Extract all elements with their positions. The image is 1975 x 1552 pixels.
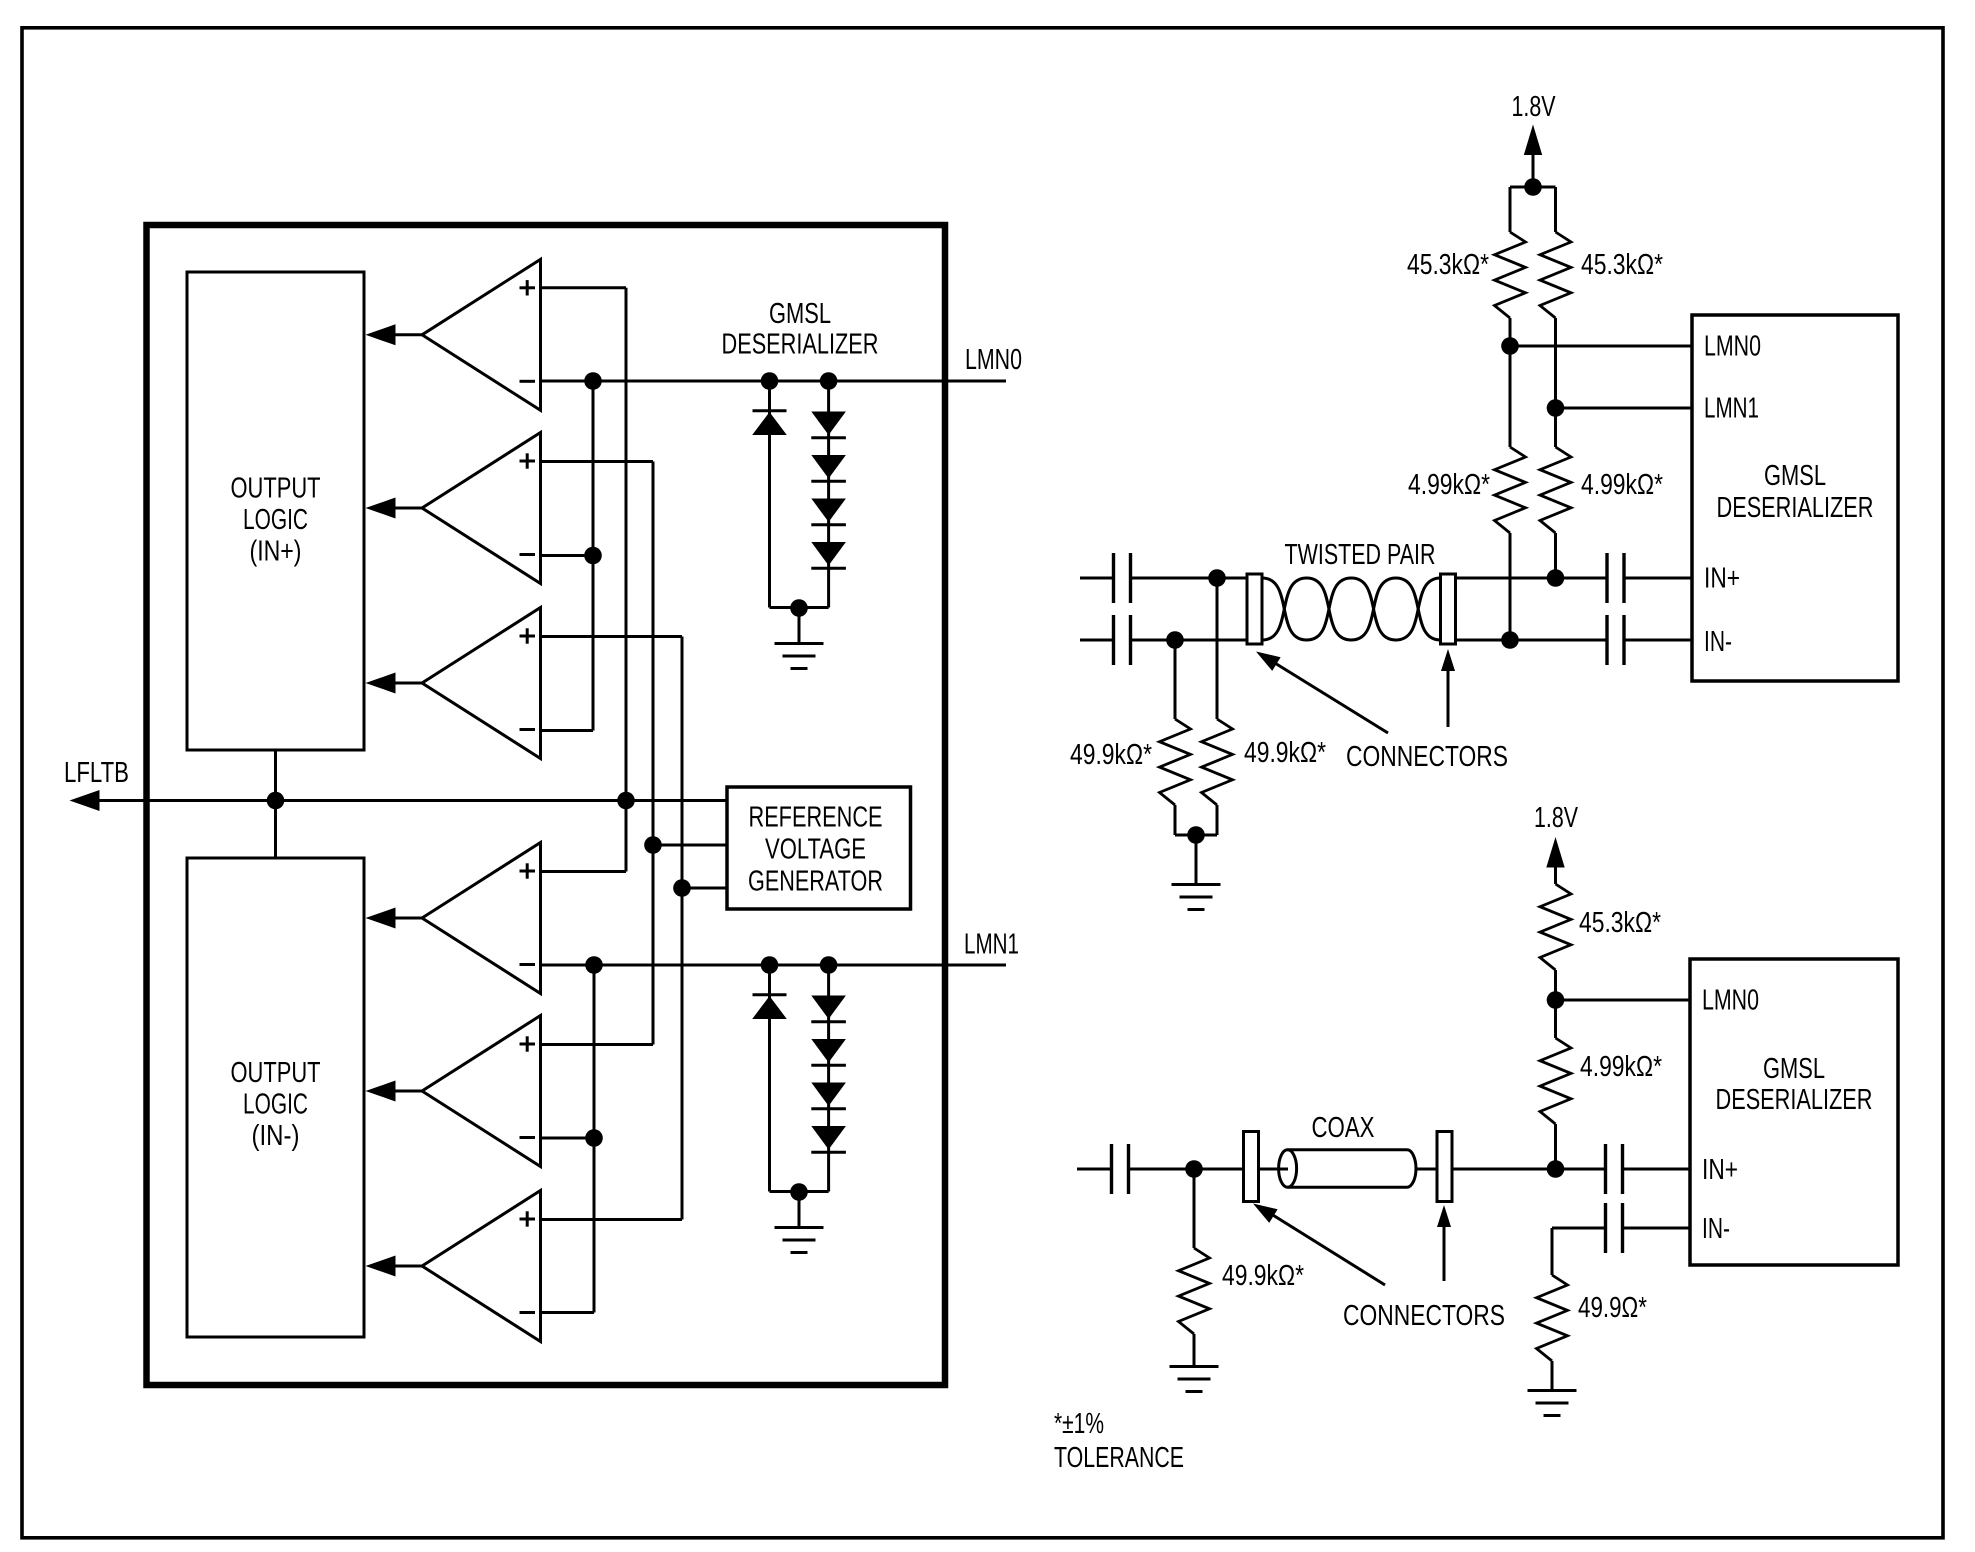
svg-text:(IN+): (IN+)	[250, 536, 302, 568]
svg-text:49.9kΩ*: 49.9kΩ*	[1070, 739, 1152, 771]
svg-text:(IN-): (IN-)	[252, 1120, 300, 1152]
svg-text:VOLTAGE: VOLTAGE	[765, 834, 866, 866]
svg-text:IN+: IN+	[1702, 1154, 1738, 1186]
svg-text:LOGIC: LOGIC	[243, 1089, 308, 1121]
svg-text:4.99kΩ*: 4.99kΩ*	[1408, 469, 1490, 501]
svg-text:45.3kΩ*: 45.3kΩ*	[1407, 249, 1489, 281]
svg-text:IN+: IN+	[1704, 563, 1740, 595]
svg-text:LMN0: LMN0	[1702, 985, 1759, 1017]
svg-text:GMSL: GMSL	[1763, 1053, 1825, 1085]
svg-text:GMSL: GMSL	[769, 298, 831, 330]
svg-text:TWISTED PAIR: TWISTED PAIR	[1285, 539, 1436, 571]
svg-text:*±1%: *±1%	[1054, 1408, 1104, 1440]
svg-text:LMN0: LMN0	[965, 344, 1022, 376]
svg-text:IN-: IN-	[1702, 1213, 1730, 1245]
svg-text:DESERIALIZER: DESERIALIZER	[1716, 1084, 1873, 1116]
svg-text:1.8V: 1.8V	[1512, 91, 1556, 123]
svg-text:49.9kΩ*: 49.9kΩ*	[1222, 1260, 1304, 1292]
svg-text:IN-: IN-	[1704, 626, 1732, 658]
svg-text:1.8V: 1.8V	[1534, 802, 1578, 834]
svg-text:49.9Ω*: 49.9Ω*	[1578, 1292, 1647, 1324]
svg-text:LMN0: LMN0	[1704, 331, 1761, 363]
svg-text:CONNECTORS: CONNECTORS	[1343, 1300, 1505, 1332]
svg-text:GMSL: GMSL	[1764, 460, 1826, 492]
svg-text:OUTPUT: OUTPUT	[231, 1057, 321, 1089]
svg-text:GENERATOR: GENERATOR	[748, 866, 883, 898]
svg-text:OUTPUT: OUTPUT	[231, 473, 321, 505]
svg-text:DESERIALIZER: DESERIALIZER	[1717, 492, 1874, 524]
svg-text:LFLTB: LFLTB	[64, 757, 129, 789]
svg-text:TOLERANCE: TOLERANCE	[1054, 1442, 1184, 1474]
svg-text:LMN1: LMN1	[964, 929, 1019, 961]
svg-text:LMN1: LMN1	[1704, 393, 1759, 425]
svg-text:4.99kΩ*: 4.99kΩ*	[1580, 1051, 1662, 1083]
svg-text:DESERIALIZER: DESERIALIZER	[722, 329, 879, 361]
svg-text:49.9kΩ*: 49.9kΩ*	[1244, 737, 1326, 769]
svg-text:45.3kΩ*: 45.3kΩ*	[1579, 907, 1661, 939]
svg-text:CONNECTORS: CONNECTORS	[1346, 741, 1508, 773]
svg-text:45.3kΩ*: 45.3kΩ*	[1581, 249, 1663, 281]
svg-text:COAX: COAX	[1312, 1112, 1375, 1144]
svg-text:4.99kΩ*: 4.99kΩ*	[1581, 469, 1663, 501]
svg-text:REFERENCE: REFERENCE	[749, 802, 883, 834]
svg-text:LOGIC: LOGIC	[243, 504, 308, 536]
